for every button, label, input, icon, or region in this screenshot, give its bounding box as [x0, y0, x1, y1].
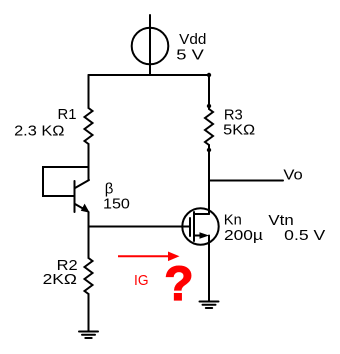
mosfet M1 circle	[182, 208, 218, 244]
transistor Q1 emitter arrowhead	[81, 204, 90, 213]
junction dot R3 bottom	[207, 148, 211, 152]
mosfet M1 source arrowhead	[200, 232, 210, 238]
svg-text:5 V: 5 V	[176, 47, 204, 64]
svg-text:150: 150	[103, 196, 130, 213]
resistor R2	[85, 258, 93, 294]
svg-text:200µ: 200µ	[224, 227, 263, 244]
transistor Q1 collector	[75, 180, 89, 188]
resistor R3	[205, 109, 213, 145]
svg-text:Vdd: Vdd	[179, 31, 206, 48]
mosfet M1 source lead	[194, 235, 201, 237]
ground left	[79, 332, 98, 339]
wire emitter to gate	[89, 226, 191, 228]
ground right	[200, 302, 219, 309]
svg-text:?: ?	[164, 258, 193, 311]
wire R3 to drain	[208, 145, 210, 214]
svg-text:Vo: Vo	[283, 167, 302, 184]
svg-text:5KΩ: 5KΩ	[223, 122, 255, 139]
junction dot bus-R3 corner	[207, 73, 211, 77]
resistor R1	[85, 108, 93, 144]
wire bus to R1	[88, 75, 90, 108]
wire R1 to collector node	[88, 144, 90, 180]
junction dot R3 top	[207, 104, 211, 108]
mosfet M1 channel bar	[193, 212, 195, 241]
current arrow IG	[118, 252, 180, 262]
svg-text:2KΩ: 2KΩ	[43, 271, 77, 288]
svg-text:2.3 KΩ: 2.3 KΩ	[14, 122, 64, 139]
wire source to ground	[208, 236, 210, 302]
wire R2 to ground	[88, 294, 90, 332]
mosfet M1 drain lead	[194, 213, 209, 215]
svg-text:R1: R1	[58, 106, 77, 123]
svg-text:IG: IG	[134, 272, 149, 289]
wire bus to R3	[208, 75, 210, 109]
wire Vdd pin stub	[149, 15, 151, 75]
transistor Q1 base bar	[74, 181, 76, 212]
wire base-collector loop	[43, 167, 89, 196]
wire emitter down	[88, 212, 90, 258]
svg-text:0.5 V: 0.5 V	[284, 227, 325, 244]
mosfet M1 gate bar	[189, 218, 191, 236]
wire Vo output	[209, 180, 283, 182]
wire top bus	[89, 74, 210, 76]
power source Vdd circle	[132, 28, 169, 65]
transistor Q1 emitter	[75, 204, 86, 210]
